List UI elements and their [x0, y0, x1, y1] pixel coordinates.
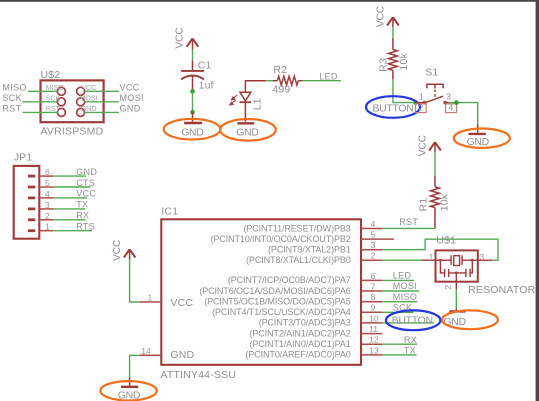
- wire net RX: [53, 219, 85, 221]
- svg-text:RST: RST: [399, 217, 418, 227]
- junction: [413, 100, 418, 105]
- svg-text:SCK: SCK: [2, 93, 22, 103]
- svg-text:(PCINT4/T1/SCL/USCK/ADC4)PA4: (PCINT4/T1/SCL/USCK/ADC4)PA4: [212, 307, 351, 317]
- svg-text:6: 6: [45, 167, 50, 177]
- pin 6 stub: [40, 175, 54, 177]
- svg-text:VCC: VCC: [416, 135, 428, 157]
- svg-text:VCC: VCC: [174, 27, 186, 49]
- svg-text:(PCINT10/INT0/OC0A/CKOUT)PB2: (PCINT10/INT0/OC0A/CKOUT)PB2: [210, 234, 350, 244]
- pad MOSI: [77, 98, 85, 106]
- pin 3 stub: [361, 249, 382, 251]
- LED L1: [240, 92, 252, 122]
- VCC symbol: [429, 142, 441, 152]
- contact pin 1: [423, 101, 426, 104]
- pad box 4: [446, 104, 457, 113]
- wire net VCC: [53, 197, 87, 199]
- pin 4 stub: [361, 228, 382, 230]
- svg-text:L1: L1: [251, 98, 263, 110]
- svg-text:(PCINT7/ICP/OC0B/ADC7)PA7: (PCINT7/ICP/OC0B/ADC7)PA7: [228, 275, 351, 285]
- svg-text:3: 3: [480, 252, 485, 262]
- junction: [190, 89, 195, 94]
- svg-text:3: 3: [45, 200, 50, 210]
- pin 1 VCC stub: [140, 301, 161, 303]
- pin 14 GND stub: [140, 354, 161, 356]
- GND ellipse: [164, 119, 221, 140]
- pin 11 stub: [361, 333, 382, 335]
- svg-text:BUTTON: BUTTON: [373, 103, 414, 115]
- svg-text:(PCINT11/RESET/DW)PB3: (PCINT11/RESET/DW)PB3: [243, 223, 350, 233]
- wire net SCK: [382, 311, 413, 313]
- svg-text:GND: GND: [236, 126, 259, 138]
- BUTTON ellipse: [366, 96, 420, 118]
- pin 2 stub: [40, 219, 54, 221]
- pin 1 stub: [40, 230, 54, 232]
- svg-text:(PCINT9/XTAL2)PB1: (PCINT9/XTAL2)PB1: [268, 245, 351, 255]
- wire net VCC: [85, 90, 119, 92]
- svg-text:4: 4: [45, 189, 50, 199]
- svg-text:GND: GND: [76, 167, 97, 177]
- pin 12 stub: [361, 343, 382, 345]
- svg-text:RST: RST: [46, 104, 61, 113]
- wire LED anode: [245, 80, 266, 82]
- resistor R2: [273, 80, 277, 82]
- svg-text:R1: R1: [418, 198, 430, 212]
- svg-text:VCC: VCC: [120, 83, 140, 93]
- border right: [536, 0, 539, 401]
- pin 2 lead: [455, 273, 457, 282]
- pin 3 stub: [40, 208, 54, 210]
- contact pin 3: [443, 101, 446, 104]
- wire net LED: [303, 80, 342, 82]
- svg-text:2: 2: [418, 103, 423, 113]
- wire net TX: [382, 354, 416, 356]
- wire net MISO: [382, 301, 417, 303]
- pin 4 stub: [40, 197, 54, 199]
- resistor R3: [392, 38, 394, 50]
- BUTTON ellipse: [386, 310, 441, 330]
- svg-text:9: 9: [371, 303, 376, 313]
- svg-text:IC1: IC1: [161, 206, 178, 218]
- pad MISO: [57, 87, 65, 95]
- svg-text:(PCINT2/AIN1/ADC2)PA2: (PCINT2/AIN1/ADC2)PA2: [249, 328, 350, 338]
- svg-text:S1: S1: [425, 66, 438, 78]
- pad box 2: [416, 104, 427, 113]
- svg-text:MISO: MISO: [393, 292, 417, 302]
- svg-text:(PCINT5/OC1B/MISO/DO/ADC5)PA5: (PCINT5/OC1B/MISO/DO/ADC5)PA5: [204, 297, 351, 307]
- svg-text:LED: LED: [393, 271, 412, 281]
- svg-text:1: 1: [429, 252, 434, 262]
- svg-text:VCC: VCC: [111, 239, 123, 261]
- pad GND: [77, 108, 85, 116]
- junction: [190, 110, 195, 115]
- svg-text:1uf: 1uf: [199, 80, 214, 92]
- wire net RX: [382, 343, 417, 345]
- wire pin14 to GND: [130, 355, 140, 377]
- svg-text:U$2: U$2: [41, 69, 61, 81]
- wire: [192, 91, 194, 112]
- svg-text:R3: R3: [377, 58, 389, 72]
- svg-text:C1: C1: [198, 60, 212, 72]
- svg-text:AVRISPSMD: AVRISPSMD: [41, 125, 104, 137]
- svg-text:10k: 10k: [438, 193, 450, 211]
- pin 8 stub: [361, 301, 382, 303]
- svg-text:(PCINT0/AREF/ADC0)PA0: (PCINT0/AREF/ADC0)PA0: [245, 350, 350, 360]
- VCC symbol: [124, 249, 136, 259]
- pad RST: [57, 108, 65, 116]
- wire VCC to C1: [192, 50, 194, 61]
- svg-text:CTS: CTS: [76, 178, 95, 188]
- svg-text:1: 1: [419, 92, 424, 102]
- svg-text:RST: RST: [2, 104, 21, 114]
- GND ellipse: [100, 381, 156, 400]
- svg-text:RX: RX: [76, 211, 89, 221]
- svg-text:LED: LED: [319, 72, 338, 82]
- svg-text:10k: 10k: [398, 53, 410, 71]
- svg-text:MOSI: MOSI: [393, 281, 417, 291]
- svg-text:MISO: MISO: [2, 83, 26, 93]
- VCC symbol: [187, 39, 199, 50]
- svg-text:2: 2: [371, 251, 376, 261]
- pin1 wire: [416, 102, 425, 104]
- wire net MOSI: [382, 290, 419, 292]
- wire net TX: [53, 208, 85, 210]
- wire net CTS: [53, 186, 90, 188]
- pin 9 stub: [361, 311, 382, 313]
- svg-text:3: 3: [371, 240, 376, 250]
- ground: [477, 124, 479, 133]
- svg-text:GND: GND: [181, 126, 204, 138]
- pad 5: [28, 186, 35, 189]
- svg-text:2: 2: [45, 211, 50, 221]
- capacitor C1: [181, 61, 204, 91]
- wire net MOSI: [85, 101, 119, 103]
- wire net RST: [23, 111, 58, 113]
- svg-text:VCC: VCC: [374, 5, 386, 27]
- pad 3: [28, 207, 35, 210]
- svg-text:ATTINY44-SSU: ATTINY44-SSU: [160, 369, 236, 381]
- svg-text:U$1: U$1: [436, 235, 456, 247]
- svg-text:499: 499: [272, 84, 290, 96]
- wire pin2 to GND: [455, 289, 457, 308]
- pin 1 lead: [422, 259, 436, 261]
- svg-text:GND: GND: [120, 104, 141, 114]
- svg-text:GND: GND: [81, 104, 98, 113]
- pin 13 stub: [361, 354, 382, 356]
- pin labels right side: [199, 223, 350, 359]
- svg-text:11: 11: [369, 324, 378, 334]
- wire net BUTTON: [382, 322, 434, 324]
- pin 7 stub: [361, 290, 382, 292]
- junction dots: [439, 259, 442, 262]
- wire net BUTTON: [393, 80, 416, 103]
- GND ellipse: [442, 310, 498, 329]
- svg-text:RESONATOR: RESONATOR: [468, 284, 536, 296]
- junction: [454, 100, 459, 105]
- svg-text:TX: TX: [404, 346, 416, 356]
- svg-text:2: 2: [443, 285, 453, 290]
- pin 5 stub: [361, 238, 394, 240]
- wire: [266, 80, 273, 82]
- wire to GND: [449, 103, 478, 124]
- LED arrows: [230, 95, 238, 105]
- resistor R1: [434, 176, 436, 187]
- svg-text:MOSI: MOSI: [120, 93, 144, 103]
- svg-text:4: 4: [371, 219, 376, 229]
- pad 2: [28, 218, 35, 221]
- svg-text:VCC: VCC: [170, 297, 193, 309]
- wire net LED: [382, 279, 414, 281]
- svg-text:(PCINT8/XTAL1/CLKI)PB0: (PCINT8/XTAL1/CLKI)PB0: [246, 255, 351, 265]
- wire XTAL1 pin2 to resonator: [382, 259, 421, 261]
- pad 4: [28, 196, 35, 199]
- svg-text:12: 12: [369, 335, 379, 345]
- ground: [237, 122, 254, 124]
- wire XTAL2 pin3 to resonator: [382, 239, 498, 260]
- svg-text:TX: TX: [76, 200, 88, 210]
- wire: [434, 153, 436, 177]
- svg-text:1: 1: [148, 292, 153, 302]
- svg-text:VCC: VCC: [76, 189, 96, 199]
- svg-text:(PCINT6/OC1A/SDA/MOSI/ADC6)PA6: (PCINT6/OC1A/SDA/MOSI/ADC6)PA6: [199, 286, 350, 296]
- GND ellipse: [454, 129, 510, 148]
- pin 5 stub: [40, 186, 54, 188]
- pad 6: [28, 175, 35, 178]
- pin 2 stub: [361, 259, 382, 261]
- svg-text:GND: GND: [170, 349, 194, 361]
- svg-text:4: 4: [449, 103, 454, 113]
- svg-text:5: 5: [45, 178, 50, 188]
- svg-text:JP1: JP1: [14, 152, 33, 164]
- svg-text:RTS: RTS: [76, 222, 95, 232]
- pin 10 stub: [361, 322, 382, 324]
- svg-text:R2: R2: [273, 64, 287, 76]
- ground: [129, 377, 131, 385]
- wire net RTS: [53, 230, 92, 232]
- crystal: [436, 259, 452, 261]
- svg-text:8: 8: [371, 292, 376, 302]
- pad 1: [28, 229, 35, 232]
- svg-text:14: 14: [141, 346, 151, 356]
- svg-text:(PCINT1/AIN0/ADC1)PA1: (PCINT1/AIN0/ADC1)PA1: [249, 339, 350, 349]
- svg-text:3: 3: [446, 92, 451, 102]
- svg-text:5: 5: [371, 230, 376, 240]
- wire net MISO: [28, 90, 58, 92]
- pad SCK: [57, 98, 65, 106]
- pad VCC: [77, 87, 85, 95]
- pin3 wire: [445, 102, 448, 104]
- VCC symbol: [387, 17, 399, 27]
- svg-text:1: 1: [45, 222, 50, 232]
- svg-text:10: 10: [369, 313, 379, 323]
- load capacitors: [440, 260, 444, 273]
- wire: [392, 27, 394, 38]
- svg-text:(PCINT3/T0/ADC3)PA3: (PCINT3/T0/ADC3)PA3: [259, 318, 351, 328]
- wire VCC to pin1: [130, 260, 140, 303]
- pin 3 lead: [478, 259, 493, 261]
- ground: [192, 112, 194, 122]
- svg-text:6: 6: [371, 271, 376, 281]
- wire net GND: [53, 175, 86, 177]
- wire net RST: [382, 227, 435, 229]
- svg-text:13: 13: [369, 345, 379, 355]
- lever: [424, 96, 443, 103]
- border top: [0, 0, 539, 2]
- svg-text:BUTTON: BUTTON: [392, 315, 433, 327]
- pin 6 stub: [361, 279, 382, 281]
- svg-text:RX: RX: [404, 335, 417, 345]
- wire net GND: [85, 111, 119, 113]
- ground: [455, 309, 457, 311]
- svg-text:7: 7: [371, 281, 376, 291]
- actuator: [427, 84, 443, 88]
- wire net SCK: [23, 101, 58, 103]
- GND ellipse: [220, 119, 276, 141]
